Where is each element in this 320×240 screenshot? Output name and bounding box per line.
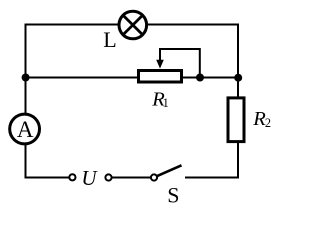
wire: right side vertical bbox=[237, 24, 239, 179]
svg-text:U: U bbox=[81, 166, 98, 190]
wire: bottom right segment from switch to right corner bbox=[185, 177, 239, 179]
rheostat R1 bbox=[139, 49, 200, 82]
wire: top side from left corner to lamp and lamp to right corner bbox=[26, 24, 239, 26]
arrowhead on slider bbox=[156, 60, 164, 69]
lamp L bbox=[119, 11, 147, 39]
switch blade bbox=[157, 165, 182, 176]
wire: bottom left segment to terminal bbox=[25, 177, 73, 179]
terminal right of U bbox=[105, 174, 111, 180]
resistor R2 bbox=[228, 98, 244, 142]
svg-text:L: L bbox=[103, 27, 116, 52]
svg-text:A: A bbox=[17, 117, 34, 142]
node junction dot right bbox=[234, 74, 242, 82]
switch S bbox=[151, 165, 182, 180]
wire: slider tap up-right-down bbox=[160, 49, 200, 78]
ammeter A bbox=[10, 114, 40, 144]
wire: bottom segment between U terminal and switch pivot bbox=[109, 177, 155, 179]
terminal left of U bbox=[69, 174, 75, 180]
svg-text:S: S bbox=[167, 182, 179, 207]
node junction dot at slider tap bbox=[196, 74, 204, 82]
svg-text:1: 1 bbox=[163, 96, 169, 110]
wire: middle horizontal through R1 bbox=[26, 77, 239, 79]
svg-text:2: 2 bbox=[265, 116, 271, 130]
wire: left side vertical bbox=[25, 24, 27, 179]
node junction dot left bbox=[22, 74, 30, 82]
